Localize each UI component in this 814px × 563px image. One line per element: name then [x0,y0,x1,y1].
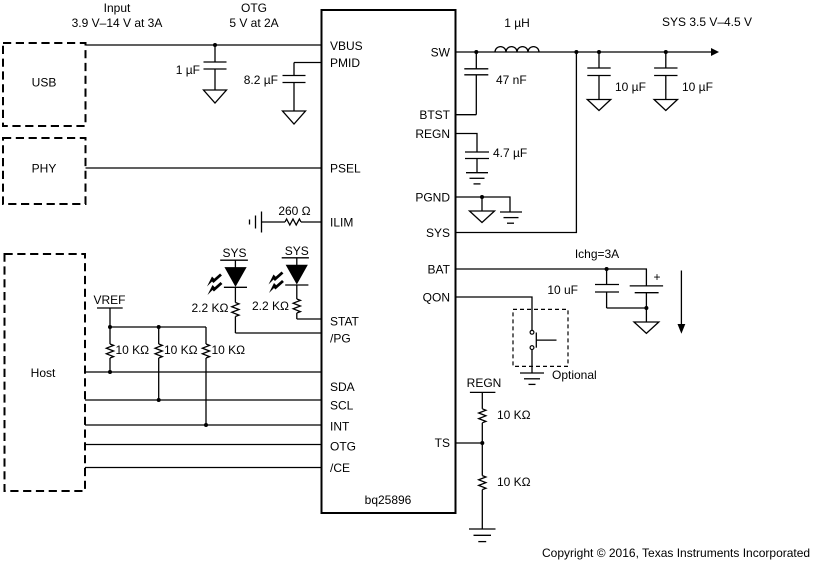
svg-text:10 KΩ: 10 KΩ [212,343,246,357]
svg-text:Input: Input [104,1,131,15]
resistor 10 KOhm R1 (SDA pullup) [106,327,149,372]
arrow Ichg direction [678,271,686,334]
LED D2 (right, SYS) [282,244,309,299]
capacitor 1 uF [176,45,227,90]
label Ichg=3A [575,247,619,261]
pin PGND [415,190,450,204]
wire battery bottom [607,307,647,309]
node SDA junction [108,370,112,374]
pin TS [435,436,450,450]
resistor 10 KOhm (TS lower) [479,443,531,529]
net VREF [93,293,125,327]
pin BAT [428,262,451,276]
wire PMID [294,62,322,64]
svg-text:10 KΩ: 10 KΩ [164,343,198,357]
svg-text:STAT: STAT [330,315,360,329]
resistor 2.2 KOhm (left LED) [192,301,240,333]
LED D1 emission arrows [207,275,222,296]
ground below PGND (triangle) [470,197,495,223]
ground below battery [634,308,659,333]
wire /PG [235,332,321,334]
svg-text:SYS: SYS [426,226,450,240]
svg-text:2.2 KΩ: 2.2 KΩ [252,299,289,313]
svg-text:VBUS: VBUS [330,39,363,53]
pin SCL [330,399,354,413]
svg-text:1 µH: 1 µH [504,16,530,30]
svg-text:Optional: Optional [552,368,597,382]
svg-text:PGND: PGND [415,190,450,204]
ground below 4.7 uF [466,173,488,184]
svg-text:REGN: REGN [467,376,502,390]
pin SYS [426,226,450,240]
USB block [3,43,86,126]
svg-text:10 KΩ: 10 KΩ [497,475,531,489]
pin QON [423,290,450,304]
capacitor 10 uF (battery) [547,269,619,308]
node VREF junction 1 [108,325,112,329]
svg-text:SW: SW [431,45,451,59]
svg-text:Ichg=3A: Ichg=3A [575,247,619,261]
capacitor 10 uF (first) [587,52,646,100]
svg-text:BTST: BTST [419,108,450,122]
ground below second 10 uF [654,100,677,111]
Host block [5,254,86,491]
pin PSEL [330,161,361,175]
svg-text:10 KΩ: 10 KΩ [116,343,150,357]
ground below 8.2 uF [283,111,306,124]
pin ILIM [330,215,353,229]
svg-text:SYS 3.5 V–4.5 V: SYS 3.5 V–4.5 V [662,15,752,29]
wire SDA [85,371,322,373]
pin BTST [419,108,450,122]
svg-text:/PG: /PG [330,332,351,346]
wire REGN [456,134,478,153]
pin PMID [330,56,360,70]
svg-text:5 V at 2A: 5 V at 2A [229,16,278,30]
node SCL junction [157,398,161,402]
svg-text:INT: INT [330,420,350,434]
LED D2 emission arrows [269,273,284,294]
svg-text:10 KΩ: 10 KΩ [497,408,531,422]
pin /PG [330,332,351,346]
PHY block [3,138,86,204]
switch S1 (optional QON button) [513,309,597,382]
svg-text:PSEL: PSEL [330,161,361,175]
wire TS [456,442,483,444]
svg-text:10 µF: 10 µF [615,80,646,94]
resistor 10 KOhm R3 (INT pullup) [202,327,245,425]
svg-text:ILIM: ILIM [330,215,353,229]
svg-text:BAT: BAT [428,262,451,276]
node BAT junction [605,267,609,271]
pin REGN [415,127,450,141]
pin SW [431,45,451,59]
resistor 260 Ohm [262,204,322,225]
pin SDA [330,380,355,394]
wire PSEL [86,167,322,169]
pin OTG [330,440,356,454]
pin INT [330,420,350,434]
wire VREF bus [110,326,206,328]
svg-text:REGN: REGN [415,127,450,141]
label SYS 3.5V-4.5V [662,15,752,29]
svg-text:Host: Host [31,366,56,380]
svg-text:/CE: /CE [330,461,350,475]
svg-text:260 Ω: 260 Ω [278,204,310,218]
resistor 10 KOhm R2 (SCL pullup) [155,327,198,400]
node cap2 junction [664,50,668,54]
wire QON [456,297,533,331]
ground below first 10 uF [587,100,610,111]
node TS junction [480,441,484,445]
wire VBUS [86,44,322,46]
inductor 1 uH [495,16,539,52]
node INT junction [204,423,208,427]
svg-text:4.7 µF: 4.7 µF [493,146,527,160]
label OTG 5V at 2A [229,1,278,30]
wire SCL [85,399,322,401]
LED D1 (left, SYS) [220,246,248,303]
svg-text:Copyright © 2016, Texas Instru: Copyright © 2016, Texas Instruments Inco… [542,546,810,560]
capacitor 10 uF (second) [654,52,713,100]
label Input 3.9V-14V at 3A [72,1,163,30]
pin /CE [330,461,350,475]
svg-text:OTG: OTG [330,440,356,454]
IC U1 bq25896 [322,10,456,513]
wire BAT [456,269,647,286]
node SYS junction on SW line [574,50,578,54]
net REGN (TS divider) [467,376,502,409]
capacitor 4.7 uF [465,146,527,173]
node PGND junction [480,195,484,199]
arrow SYS output [711,48,719,56]
node battery ground junction [644,306,648,310]
wire PGND [456,197,511,212]
pin STAT [330,315,360,329]
svg-text:bq25896: bq25896 [365,493,412,507]
node cap1 junction [597,50,601,54]
capacitor 8.2 uF [244,63,306,112]
label copyright [542,546,810,560]
node VREF junction 2 [157,325,161,329]
resistor 2.2 KOhm (right LED) [252,299,300,319]
svg-text:USB: USB [32,76,57,90]
ground below switch [520,373,544,384]
wire BTST [456,114,477,116]
svg-text:SYS: SYS [222,246,246,260]
wire /CE [85,467,322,469]
ground sideways at ILIM [250,212,262,233]
resistor 10 KOhm (TS upper) [479,408,531,443]
ground below 1 uF [204,90,227,103]
wire INT [85,424,322,426]
wire STAT [297,318,322,320]
svg-text:VREF: VREF [93,293,125,307]
capacitor 47 nF [464,52,526,115]
svg-text:+: + [653,270,660,284]
ground right of PGND (earth) [500,212,522,223]
svg-text:QON: QON [423,290,450,304]
svg-text:8.2 µF: 8.2 µF [244,73,278,87]
svg-text:PHY: PHY [32,162,57,176]
svg-text:2.2 KΩ: 2.2 KΩ [192,301,229,315]
svg-text:SDA: SDA [330,380,355,394]
pin VBUS [330,39,363,53]
node SW junction [474,50,478,54]
node VBUS junction [213,43,217,47]
svg-text:3.9 V–14 V at 3A: 3.9 V–14 V at 3A [72,16,163,30]
battery cell [630,270,663,308]
wire SYS [456,52,577,233]
svg-text:PMID: PMID [330,56,360,70]
svg-text:TS: TS [435,436,450,450]
svg-text:SCL: SCL [330,399,354,413]
wire SW output [456,51,713,53]
ground below TS divider [469,529,496,542]
svg-text:OTG: OTG [241,1,267,15]
wire OTG [85,444,322,446]
svg-text:47 nF: 47 nF [496,73,527,87]
svg-text:SYS: SYS [285,244,309,258]
svg-text:10 µF: 10 µF [682,80,713,94]
svg-text:1 µF: 1 µF [176,63,200,77]
svg-text:10 uF: 10 uF [547,283,578,297]
